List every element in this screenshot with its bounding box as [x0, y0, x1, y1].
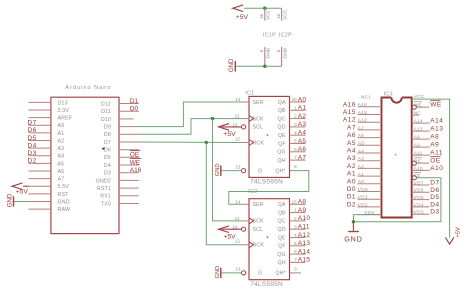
- svg-text:QD: QD: [278, 125, 286, 131]
- svg-text:GND: GND: [229, 58, 235, 72]
- svg-text:A10: A10: [414, 166, 423, 171]
- svg-text:A2: A2: [347, 163, 356, 170]
- svg-text:QA: QA: [278, 100, 286, 106]
- svg-text:RAW: RAW: [58, 207, 71, 213]
- svg-text:GND: GND: [215, 164, 221, 177]
- svg-text:D0: D0: [130, 106, 139, 113]
- svg-text:I/O2: I/O2: [358, 202, 368, 207]
- svg-text:D2: D2: [28, 158, 37, 165]
- svg-text:A7: A7: [58, 177, 65, 183]
- svg-text:A6: A6: [358, 133, 364, 138]
- svg-text:D6: D6: [28, 127, 37, 134]
- svg-text:A0: A0: [298, 96, 307, 103]
- svg-text:NC: NC: [414, 111, 422, 116]
- svg-text:15: 15: [292, 199, 298, 204]
- svg-text:A10: A10: [298, 215, 311, 222]
- svg-text:A11: A11: [298, 224, 310, 231]
- svg-text:RST1: RST1: [97, 186, 111, 192]
- svg-text:A3: A3: [58, 146, 65, 152]
- svg-text:A13: A13: [298, 240, 311, 247]
- svg-text:D9: D9: [104, 125, 111, 131]
- svg-text:QG: QG: [277, 150, 285, 156]
- svg-text:A9: A9: [298, 207, 307, 214]
- svg-text:GND: GND: [266, 47, 272, 58]
- svg-text:I/O0: I/O0: [358, 187, 368, 192]
- svg-text:A12: A12: [358, 118, 367, 123]
- svg-text:D3: D3: [28, 150, 37, 157]
- svg-text:D5: D5: [430, 194, 439, 201]
- svg-text:D4: D4: [28, 142, 37, 149]
- svg-text:GND2: GND2: [96, 178, 111, 184]
- svg-text:A4: A4: [358, 148, 364, 153]
- svg-text:A5: A5: [298, 138, 307, 145]
- svg-text:A2: A2: [58, 138, 65, 144]
- svg-text:TX0: TX0: [101, 201, 111, 207]
- svg-text:A3: A3: [298, 121, 307, 128]
- svg-text:A1: A1: [347, 171, 356, 178]
- svg-text:GND: GND: [344, 235, 362, 244]
- svg-text:13: 13: [235, 267, 241, 272]
- svg-text:NC1: NC1: [361, 95, 371, 100]
- svg-text:A12: A12: [298, 232, 311, 239]
- svg-text:SCK: SCK: [253, 219, 265, 225]
- svg-text:D3: D3: [430, 209, 439, 216]
- svg-text:A9: A9: [430, 142, 439, 149]
- svg-text:GND: GND: [283, 47, 289, 58]
- svg-text:D1: D1: [130, 98, 139, 105]
- svg-text:D3: D3: [104, 171, 111, 177]
- svg-text:QH*: QH*: [275, 271, 285, 277]
- svg-text:A11: A11: [414, 151, 423, 156]
- svg-text:G: G: [258, 168, 262, 174]
- svg-text:D6: D6: [430, 187, 439, 194]
- svg-text:QH: QH: [278, 158, 286, 164]
- svg-text:CE: CE: [414, 173, 421, 178]
- svg-text:9: 9: [294, 164, 297, 169]
- svg-text:OE: OE: [414, 159, 421, 164]
- svg-text:OE: OE: [130, 152, 140, 159]
- svg-text:QE: QE: [278, 235, 286, 241]
- svg-text:D5: D5: [104, 155, 111, 161]
- svg-text:GND: GND: [6, 193, 13, 207]
- svg-text:5: 5: [294, 139, 297, 144]
- svg-text:A7: A7: [347, 124, 356, 131]
- svg-text:12: 12: [235, 239, 241, 244]
- svg-text:SER: SER: [253, 100, 264, 106]
- svg-text:9: 9: [294, 266, 297, 271]
- svg-text:QG: QG: [277, 252, 285, 258]
- svg-text:+5V: +5V: [16, 189, 29, 196]
- svg-text:A1: A1: [358, 172, 364, 177]
- svg-text:A2: A2: [298, 113, 307, 120]
- svg-text:14: 14: [235, 97, 241, 102]
- svg-text:A11: A11: [430, 150, 443, 157]
- svg-text:QH: QH: [278, 260, 286, 266]
- svg-text:3: 3: [294, 122, 297, 127]
- svg-text:+5V: +5V: [455, 227, 461, 238]
- svg-text:IC2P: IC2P: [279, 32, 292, 38]
- svg-text:16: 16: [259, 13, 264, 19]
- svg-text:IC3: IC3: [384, 91, 393, 97]
- svg-text:A4: A4: [298, 130, 307, 137]
- svg-text:A1: A1: [58, 131, 65, 137]
- svg-text:AREF: AREF: [58, 116, 73, 122]
- svg-text:7: 7: [294, 258, 297, 263]
- svg-text:11: 11: [235, 114, 240, 119]
- svg-text:A1: A1: [298, 105, 307, 112]
- svg-text:A0: A0: [347, 178, 356, 185]
- svg-text:A16: A16: [343, 101, 356, 108]
- svg-text:A5: A5: [58, 161, 65, 167]
- svg-text:A7: A7: [358, 125, 364, 130]
- svg-text:I/O7: I/O7: [414, 180, 424, 185]
- svg-text:VCC: VCC: [266, 9, 272, 20]
- svg-text:A14: A14: [430, 118, 443, 125]
- svg-text:12: 12: [235, 136, 241, 141]
- svg-text:8: 8: [276, 50, 281, 53]
- svg-text:I/O5: I/O5: [414, 195, 424, 200]
- svg-text:A6: A6: [58, 169, 65, 175]
- svg-text:3: 3: [294, 224, 297, 229]
- svg-text:WE: WE: [414, 103, 422, 108]
- svg-text:D7: D7: [28, 120, 37, 127]
- svg-text:A3: A3: [347, 155, 356, 162]
- svg-text:RX1: RX1: [100, 194, 111, 200]
- svg-text:A6: A6: [298, 146, 307, 153]
- svg-text:13: 13: [235, 164, 241, 169]
- svg-text:5: 5: [294, 241, 297, 246]
- svg-text:A13: A13: [414, 127, 423, 132]
- svg-text:I/O6: I/O6: [414, 188, 424, 193]
- svg-text:1: 1: [294, 105, 297, 110]
- svg-text:14: 14: [235, 199, 241, 204]
- svg-text:A9: A9: [414, 143, 420, 148]
- svg-text:D0: D0: [347, 186, 356, 193]
- svg-text:6: 6: [294, 147, 297, 152]
- svg-text:74LS595N: 74LS595N: [250, 281, 283, 288]
- svg-text:QC: QC: [278, 116, 286, 122]
- svg-text:D4: D4: [104, 163, 111, 169]
- svg-text:11: 11: [235, 216, 240, 221]
- svg-text:GND: GND: [58, 199, 70, 205]
- svg-text:A15: A15: [343, 109, 356, 116]
- svg-text:A7: A7: [298, 154, 307, 161]
- svg-text:OE: OE: [430, 158, 441, 165]
- svg-text:A6: A6: [347, 132, 356, 139]
- svg-text:QH*: QH*: [275, 168, 285, 174]
- svg-text:D7: D7: [430, 180, 439, 187]
- svg-text:I/O1: I/O1: [358, 195, 368, 200]
- svg-text:4: 4: [294, 130, 297, 135]
- svg-text:A0: A0: [358, 179, 364, 184]
- svg-text:A8: A8: [430, 134, 439, 141]
- svg-text:6: 6: [294, 249, 297, 254]
- svg-text:15: 15: [292, 97, 298, 102]
- svg-text:SCL: SCL: [253, 227, 264, 233]
- svg-text:A5: A5: [347, 140, 356, 147]
- svg-text:QB: QB: [278, 210, 286, 216]
- svg-text:2: 2: [294, 216, 297, 221]
- svg-text:WE: WE: [430, 102, 442, 109]
- svg-text:A10: A10: [430, 165, 443, 172]
- svg-text:3.3V: 3.3V: [58, 108, 70, 114]
- svg-text:QC: QC: [278, 219, 286, 225]
- svg-text:2: 2: [294, 114, 297, 119]
- svg-text:QD: QD: [278, 227, 286, 233]
- svg-text:D1: D1: [347, 194, 356, 201]
- svg-text:16: 16: [276, 13, 281, 19]
- svg-text:D11: D11: [101, 109, 111, 115]
- svg-text:A2: A2: [358, 164, 364, 169]
- svg-text:A3: A3: [358, 156, 364, 161]
- svg-text:A16: A16: [130, 167, 142, 174]
- svg-text:QB: QB: [278, 108, 286, 114]
- svg-text:A16: A16: [358, 102, 367, 107]
- svg-text:RCK: RCK: [253, 140, 265, 146]
- svg-text:SER: SER: [253, 202, 264, 208]
- svg-text:A4: A4: [347, 148, 356, 155]
- svg-text:A14: A14: [298, 248, 311, 255]
- svg-text:A0: A0: [58, 123, 65, 129]
- svg-text:D2: D2: [347, 201, 356, 208]
- svg-text:RCK: RCK: [253, 243, 265, 249]
- svg-text:A12: A12: [343, 117, 356, 124]
- svg-text:WE: WE: [130, 159, 141, 166]
- svg-text:QF: QF: [278, 244, 286, 250]
- svg-text:A5: A5: [358, 141, 364, 146]
- svg-text:QA: QA: [278, 202, 286, 208]
- svg-text:RST: RST: [58, 192, 70, 198]
- svg-text:VCC: VCC: [283, 9, 289, 20]
- svg-text:+5V: +5V: [236, 14, 249, 21]
- svg-text:Arduino Nano: Arduino Nano: [65, 85, 111, 91]
- svg-text:D10: D10: [101, 117, 111, 123]
- svg-text:SCL: SCL: [253, 125, 264, 131]
- svg-text:74LS595N: 74LS595N: [250, 179, 283, 186]
- svg-text:D13: D13: [58, 100, 68, 106]
- svg-text:VCC: VCC: [414, 94, 425, 99]
- svg-text:I/O3: I/O3: [414, 210, 424, 215]
- svg-text:G: G: [258, 271, 262, 277]
- svg-text:D7: D7: [104, 140, 111, 146]
- svg-text:D8: D8: [104, 132, 111, 138]
- svg-text:D5: D5: [28, 135, 37, 142]
- svg-text:D4: D4: [430, 201, 439, 208]
- svg-text:A13: A13: [430, 126, 443, 133]
- svg-text:D6: D6: [104, 148, 111, 154]
- svg-text:SCK: SCK: [253, 116, 265, 122]
- svg-text:A15: A15: [358, 110, 367, 115]
- svg-text:QF: QF: [278, 141, 286, 147]
- svg-text:IC1: IC1: [245, 91, 254, 97]
- svg-text:8: 8: [259, 50, 264, 53]
- svg-text:D12: D12: [101, 101, 111, 107]
- svg-text:1: 1: [294, 208, 297, 213]
- svg-text:A14: A14: [414, 119, 423, 124]
- svg-text:IC1P: IC1P: [263, 32, 276, 38]
- svg-text:5.5V: 5.5V: [58, 184, 70, 190]
- svg-text:7: 7: [294, 155, 297, 160]
- svg-text:QE: QE: [278, 133, 286, 139]
- svg-text:A8: A8: [298, 199, 307, 206]
- svg-text:I/O4: I/O4: [414, 202, 424, 207]
- svg-text:4: 4: [294, 233, 297, 238]
- svg-text:A4: A4: [58, 154, 65, 160]
- svg-text:A8: A8: [414, 135, 420, 140]
- svg-text:A15: A15: [298, 257, 311, 264]
- svg-text:GND: GND: [215, 266, 221, 279]
